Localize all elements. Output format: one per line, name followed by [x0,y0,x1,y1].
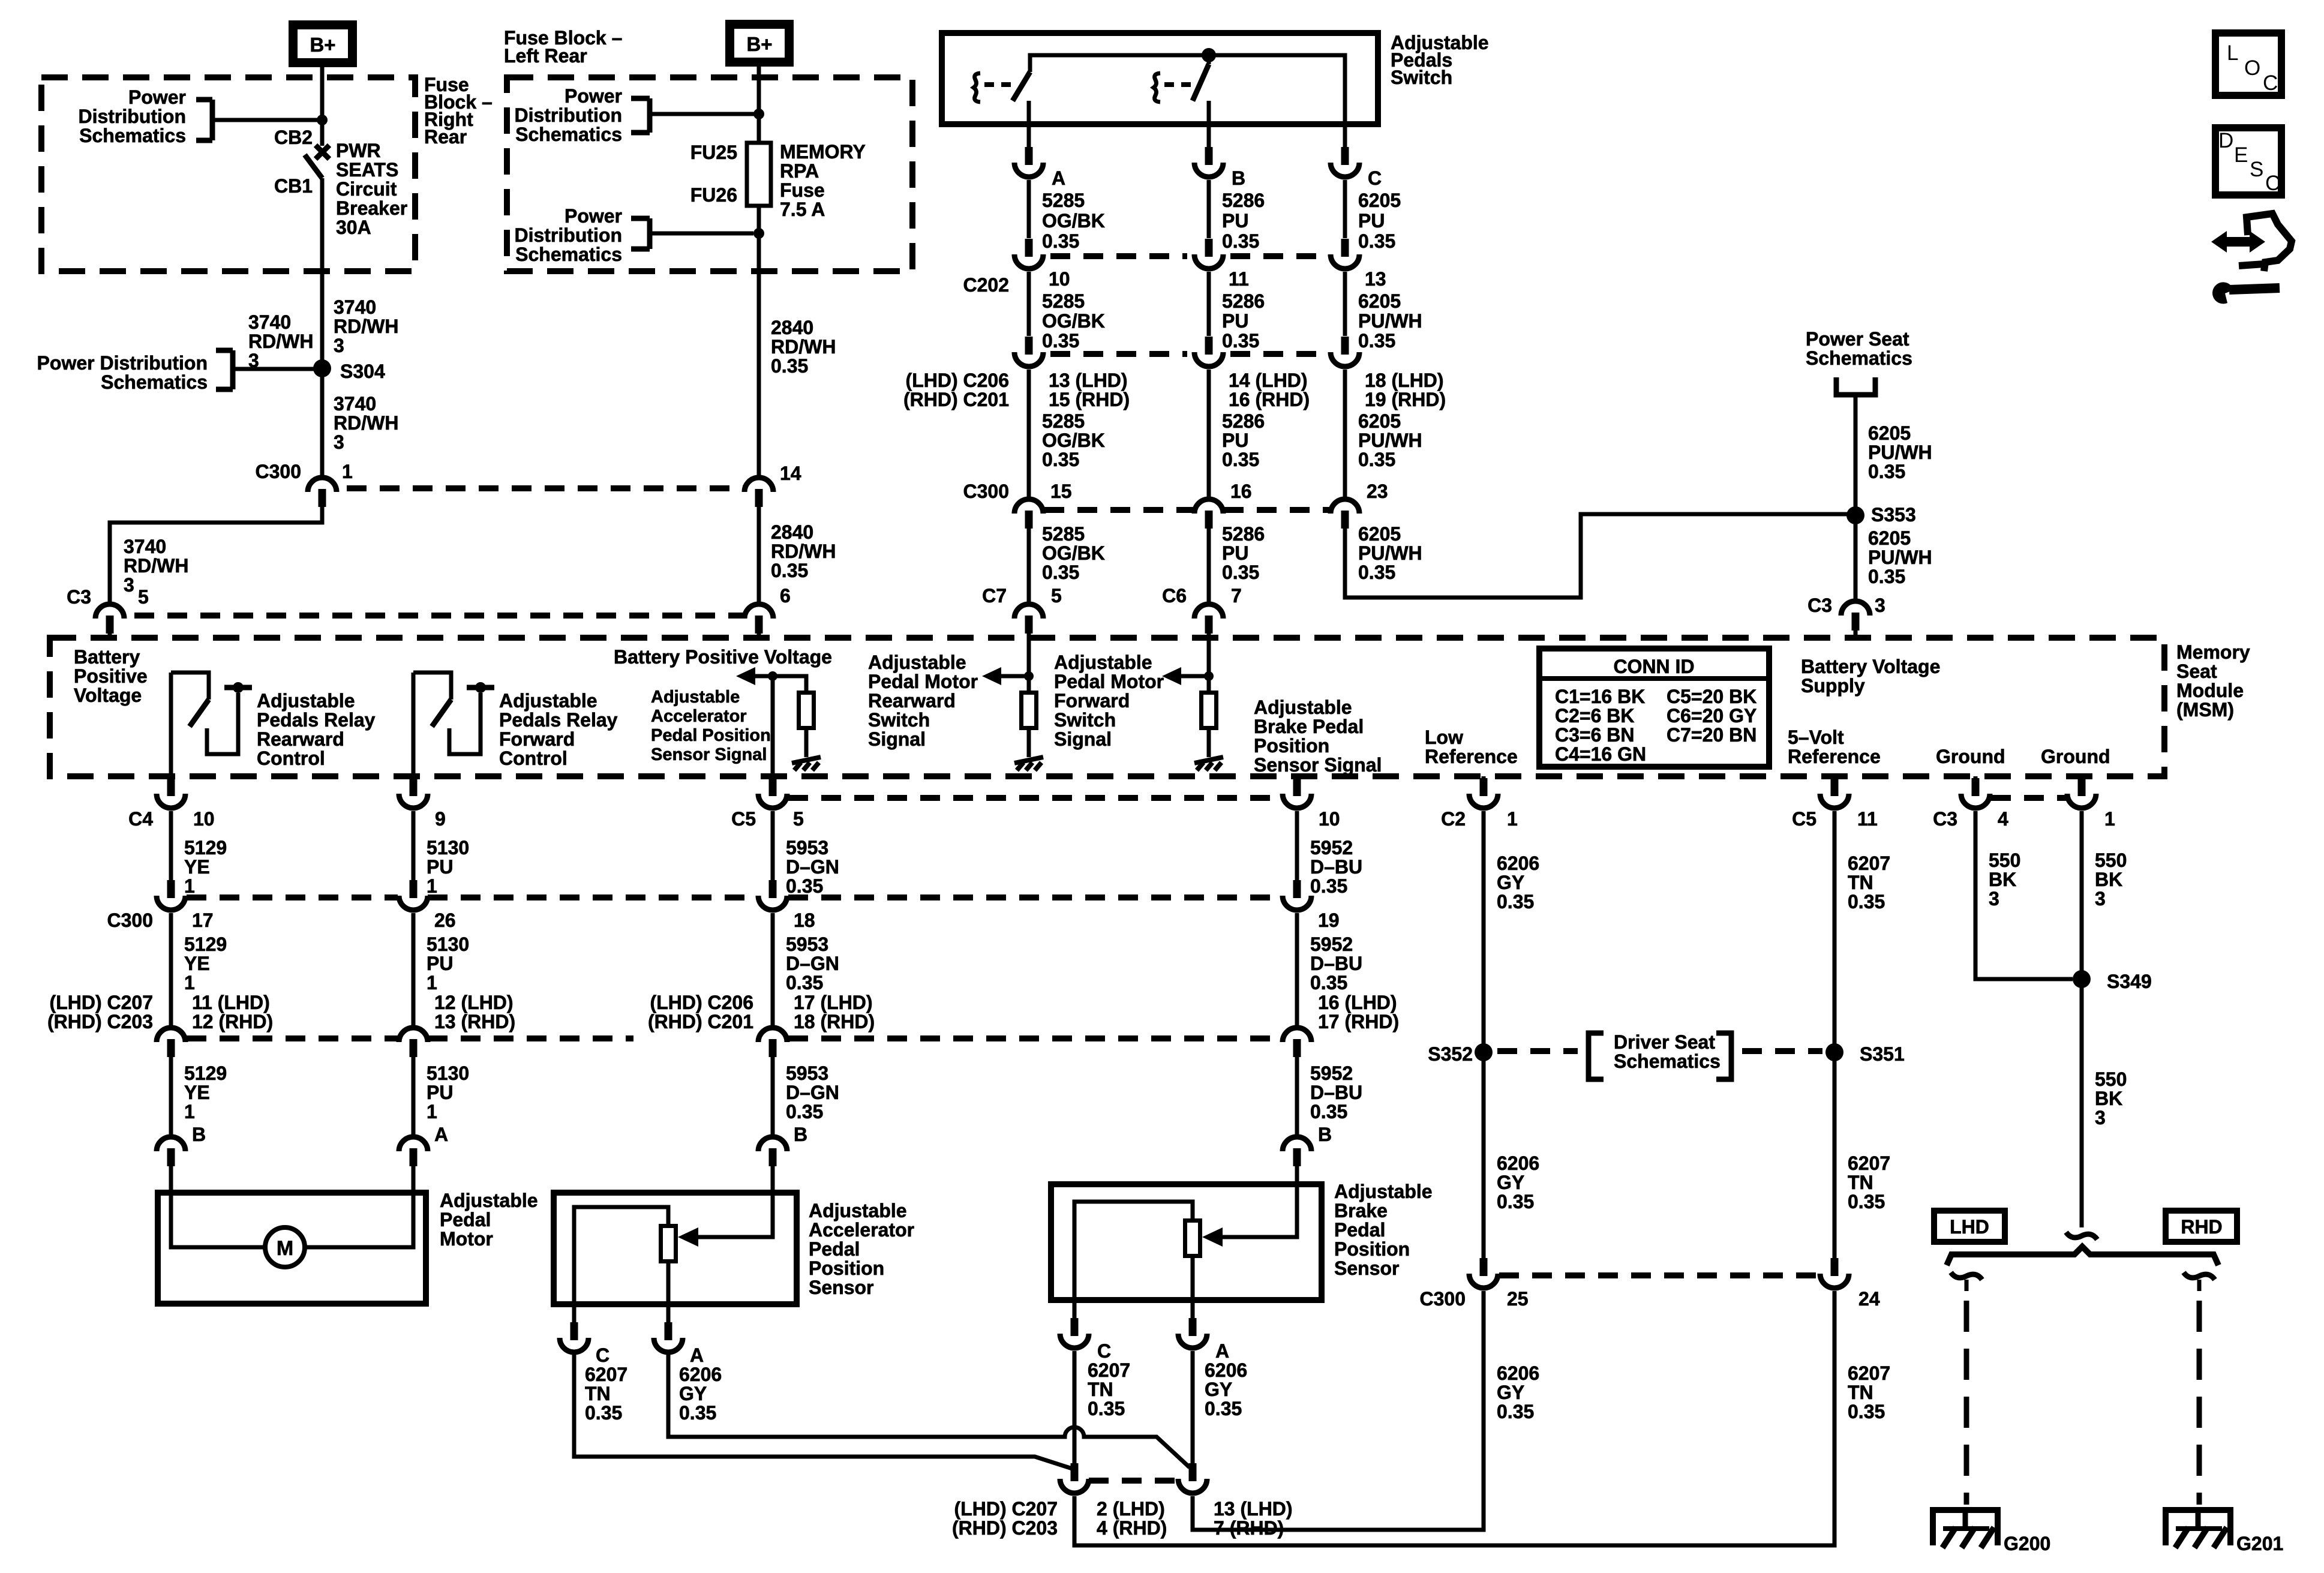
svg-text:PU/WH: PU/WH [1868,547,1932,568]
svg-text:PU: PU [427,856,453,878]
dashed line driver seat (right) [1742,1048,1822,1054]
svg-text:Power: Power [565,85,622,107]
svg-text:0.35: 0.35 [1222,230,1259,252]
connector C207/C203 row at x=285 [157,1028,185,1042]
svg-text:5: 5 [793,808,804,830]
wire C202-10 down [1027,272,1031,336]
svg-text:0.35: 0.35 [1310,972,1347,993]
svg-text:Adjustable: Adjustable [499,690,597,712]
node FU25 feed [753,109,764,119]
svg-text:Adjustable: Adjustable [257,690,355,712]
svg-text:BK: BK [2095,869,2122,890]
svg-text:Sensor: Sensor [809,1277,873,1298]
svg-text:5285: 5285 [1042,190,1085,211]
wire C300-1 to C3-5 [110,507,322,602]
svg-text:2840: 2840 [771,317,813,338]
connector C300 pin 15 [1014,499,1043,514]
dashed line MSM output row (C5-5 to brake) [788,795,1281,801]
svg-text:5: 5 [1051,585,1062,607]
dashed line C300 bottom row [1499,1272,1819,1278]
svg-text:Rearward: Rearward [257,728,344,750]
wire S304 to C300-1 [320,368,325,476]
svg-text:1: 1 [1507,808,1518,830]
svg-text:6207: 6207 [1848,1152,1890,1174]
node relay 2 feed [475,682,486,693]
bracket power distribution (S304) [216,348,233,353]
svg-text:Pedal Motor: Pedal Motor [868,671,978,692]
wire switch output A [1027,124,1031,147]
RHD drop stub [2197,1280,2202,1291]
wire B pin to brake sensor box [1295,1166,1299,1187]
RHD box [2166,1211,2237,1242]
svg-text:Sensor Signal: Sensor Signal [1254,754,1382,776]
svg-text:PWR: PWR [336,140,381,161]
motor M symbol [265,1227,305,1267]
svg-text:Rearward: Rearward [868,690,956,712]
svg-text:(LHD) C207: (LHD) C207 [954,1498,1058,1520]
svg-text:PU: PU [1222,542,1248,564]
wire down to C300 row [1027,370,1031,498]
svg-text:17 (RHD): 17 (RHD) [1318,1011,1399,1032]
svg-text:CONN ID: CONN ID [1613,656,1694,677]
wire brake C down [1073,1351,1077,1464]
svg-text:TN: TN [1848,872,1873,893]
svg-text:0.35: 0.35 [1205,1398,1242,1419]
svg-text:0.35: 0.35 [1497,1191,1534,1212]
svg-text:Memory: Memory [2176,641,2250,663]
wire switch output B [1207,124,1211,147]
wire acc A to bottom connector (with hop) [668,1351,1190,1467]
svg-text:16: 16 [1230,481,1252,502]
svg-text:Pedal: Pedal [1334,1219,1385,1241]
svg-text:1: 1 [427,1101,437,1122]
wire B+2 down [757,65,761,143]
svg-text:5–Volt: 5–Volt [1788,727,1844,748]
brake wiper feed [1221,1187,1297,1237]
svg-text:A: A [690,1344,704,1366]
svg-text:(RHD) C201: (RHD) C201 [648,1011,753,1032]
svg-text:19 (RHD): 19 (RHD) [1365,389,1446,410]
connector C300 pin 24 [1831,1258,1839,1276]
svg-text:D–GN: D–GN [786,856,839,878]
wire down to C300 row [1207,370,1211,498]
svg-text:C5: C5 [1792,808,1816,830]
node rearward switch signal [1024,671,1034,681]
svg-text:C300: C300 [1420,1288,1466,1310]
connector acc sensor pin C [571,1322,578,1340]
svg-text:C3: C3 [1807,595,1832,616]
svg-text:C3=6 BN: C3=6 BN [1555,724,1635,746]
adjustable accelerator pedal position sensor box [554,1193,797,1304]
svg-text:6206: 6206 [1205,1359,1247,1381]
svg-text:TN: TN [1088,1379,1113,1400]
svg-text:5952: 5952 [1310,933,1353,955]
svg-text:Power Seat: Power Seat [1806,328,1909,350]
wire switch output C [1343,124,1347,147]
switch common rail [1030,55,1345,124]
svg-text:D: D [2218,129,2233,152]
fuse block left rear dashed box [507,77,912,271]
svg-text:A: A [1052,167,1065,189]
wire A to C202 [1027,180,1031,238]
svg-text:S352: S352 [1428,1043,1473,1065]
LOC box [2215,33,2281,95]
wire tap to FU26 node [650,232,753,236]
svg-text:C2: C2 [1441,808,1466,830]
svg-text:(MSM): (MSM) [2176,699,2234,721]
svg-text:1: 1 [2104,808,2115,830]
svg-text:GY: GY [1497,872,1524,893]
connector C300 pin 14 [744,478,773,492]
dashed line MSM output row (C3-4 to ground 1) [1991,795,2066,801]
svg-text:Adjustable: Adjustable [1334,1181,1433,1202]
svg-text:25: 25 [1507,1288,1529,1310]
svg-text:C: C [2265,172,2280,195]
wire MSM box edge to connector at x=689 [412,776,416,780]
wire 5952 seg3 [1295,1057,1299,1134]
dashed wire to G201 [2197,1301,2202,1505]
wire 5130 seg3 [412,1057,416,1134]
svg-text:5130: 5130 [427,933,469,955]
svg-text:18 (LHD): 18 (LHD) [1365,370,1444,391]
arrow rearward switch signal [982,667,1001,685]
svg-text:5953: 5953 [786,933,828,955]
svg-text:PU/WH: PU/WH [1868,442,1932,463]
svg-text:C: C [1368,167,1382,189]
connector C300 pin 19 [1293,880,1301,898]
adjustable pedals icon arrow [2211,231,2265,253]
motor internal wires [171,1193,265,1247]
wire 6207 TN to C300-24 [1074,1291,1834,1545]
svg-text:RD/WH: RD/WH [248,331,313,352]
svg-text:PU/WH: PU/WH [1358,310,1422,332]
svg-text:Schematics: Schematics [515,244,622,265]
svg-text:1: 1 [184,875,195,897]
connector brake sensor pin C [1071,1318,1079,1336]
svg-text:5953: 5953 [786,1062,828,1084]
svg-text:0.35: 0.35 [1358,230,1395,252]
svg-text:Accelerator: Accelerator [809,1219,914,1241]
svg-text:OG/BK: OG/BK [1042,210,1105,232]
svg-text:C3: C3 [1933,808,1957,830]
wire CB1 to S304 [320,178,325,361]
arrow forward switch signal [1162,667,1181,685]
svg-text:5952: 5952 [1310,1062,1353,1084]
wire B+ to CB2 [320,67,325,146]
connector C6 pin 7 [1194,604,1223,619]
svg-text:12 (RHD): 12 (RHD) [192,1011,273,1032]
wire below C300-26 [412,913,416,1026]
svg-text:C202: C202 [963,274,1010,296]
wire MSM box edge to connector at x=285 [169,776,173,780]
svg-text:TN: TN [1848,1382,1873,1403]
switch 1 actuator dashes [984,82,1014,87]
svg-text:Breaker: Breaker [336,197,407,219]
svg-text:GY: GY [679,1383,707,1404]
connector device pin at x=2162 [1283,1137,1311,1151]
connector brake sensor pin A [1189,1318,1197,1336]
svg-text:Sensor: Sensor [1334,1257,1399,1279]
wire MSM box edge to connector at x=3293 [1974,776,1978,780]
svg-text:GY: GY [1205,1379,1232,1400]
svg-text:Voltage: Voltage [74,685,142,706]
svg-text:(LHD) C206: (LHD) C206 [650,992,753,1013]
connector C3 pin 5 [95,604,124,619]
wire accelerator tap branch [773,676,806,691]
connector pedals switch pin B [1205,147,1213,165]
connector C206/C201 pin 14 (LHD) [1205,337,1213,355]
wire C5-11 to S351 [1833,811,1837,1052]
svg-text:3: 3 [1989,888,1999,909]
resistor forward switch signal [1202,693,1217,728]
power symbol B+ (fuse block right rear feed) [293,25,353,63]
ground G200 [1933,1507,1998,1513]
svg-text:Schematics: Schematics [1614,1050,1721,1072]
LHD drop stub [1965,1280,1969,1291]
svg-text:0.35: 0.35 [786,1101,823,1122]
svg-text:1: 1 [427,972,437,993]
switch 1 contact wire A [1027,101,1031,124]
connector C300 pin 16 [1194,499,1223,514]
svg-text:3740: 3740 [334,393,376,415]
arrow to battery positive voltage [736,667,755,685]
svg-text:RD/WH: RD/WH [771,541,836,562]
dashed line bottom connector row [1089,1478,1177,1484]
wire S353 to C3-3 [1854,515,1858,599]
svg-text:OG/BK: OG/BK [1042,542,1105,564]
svg-text:13 (LHD): 13 (LHD) [1049,370,1128,391]
LHD/RHD option split bar [1947,1247,2218,1265]
bracket power distribution (FU25 top) [631,96,650,101]
svg-text:6205: 6205 [1358,190,1401,211]
wire acc C out [572,1304,577,1323]
svg-text:Pedal: Pedal [809,1238,860,1260]
connector row pin 1 at x=3470 [2078,778,2086,796]
svg-text:Brake: Brake [1334,1200,1388,1221]
svg-text:5285: 5285 [1042,523,1085,545]
wire 5952 seg1 [1295,811,1299,880]
svg-text:Pedal Position: Pedal Position [651,726,771,745]
svg-text:Module: Module [2176,680,2244,701]
switch 2 blade [1193,64,1209,101]
connector pedals switch pin C [1341,147,1349,165]
wire C300-16 to C6-7 [1207,529,1211,602]
svg-text:S353: S353 [1871,504,1916,526]
switch 2 stem [1207,55,1211,64]
svg-text:0.35: 0.35 [1848,891,1885,912]
svg-text:Adjustable: Adjustable [868,652,966,673]
resistor rearward switch signal [1022,693,1037,728]
wire power distribution tap [212,118,322,122]
svg-text:4 (RHD): 4 (RHD) [1097,1517,1167,1539]
svg-text:6: 6 [780,585,791,607]
adjustable pedal motor box [158,1193,426,1304]
switch 1 actuator curly [974,73,980,102]
wire 5129 seg3 [169,1057,173,1134]
svg-text:6206: 6206 [1497,1152,1539,1174]
svg-text:E: E [2234,143,2248,167]
svg-text:CB1: CB1 [274,175,313,197]
svg-text:5953: 5953 [786,837,828,858]
wire accelerator signal to box edge [771,676,775,776]
svg-text:G201: G201 [2236,1533,2283,1554]
connector memory seat module pin 6 [744,604,773,619]
wire 6206 GY to C300-25 [1193,1291,1484,1530]
svg-text:S351: S351 [1860,1043,1905,1065]
svg-text:Pedal Motor: Pedal Motor [1054,671,1164,692]
svg-text:Reference: Reference [1788,746,1881,767]
svg-text:0.35: 0.35 [771,355,808,377]
svg-text:PU: PU [1222,210,1248,232]
wire C3-4 to S349 [1975,811,2073,979]
svg-text:Switch: Switch [868,709,930,731]
wire MSM box edge to connector at x=2162 [1295,776,1299,780]
svg-text:Fuse: Fuse [780,179,825,201]
wire MSM box edge to connector at x=3470 [2080,776,2084,780]
wire S352 to C300-25 [1482,1052,1486,1258]
adjustable pedals switch box [942,33,1378,124]
svg-text:7.5 A: 7.5 A [780,199,825,220]
svg-text:Distribution: Distribution [514,104,622,126]
svg-text:11: 11 [1857,808,1878,830]
connector device pin at x=285 [157,1137,185,1151]
svg-text:C3: C3 [67,586,91,608]
svg-text:C7: C7 [982,585,1007,607]
svg-text:D–GN: D–GN [786,953,839,974]
wire relay 2 to box edge [412,673,416,776]
dashed line C300 row (left) [347,485,744,491]
wire MSM box edge to connector at x=2473 [1482,776,1486,780]
wire acc A out [666,1304,671,1323]
connector C206/C201 pin 18 (LHD) [1341,337,1349,355]
svg-text:17 (LHD): 17 (LHD) [794,992,873,1013]
svg-text:3740: 3740 [248,311,291,333]
svg-text:0.35: 0.35 [679,1402,716,1424]
wire break squiggle (LHD) [1951,1272,1982,1280]
connector C207/C203 row at x=2162 [1283,1028,1311,1042]
wire B pin to accelerator sensor box [771,1166,775,1195]
svg-text:C7=20 BN: C7=20 BN [1667,724,1756,746]
svg-text:6207: 6207 [1088,1359,1130,1381]
svg-text:3740: 3740 [124,536,166,557]
relay 1 feed bar [224,685,252,691]
svg-text:Ground: Ground [2041,746,2110,767]
connector C207/C203 pin 13/7 [1189,1463,1197,1481]
relay 2 feed bar [467,685,494,691]
svg-text:Pedal: Pedal [440,1209,491,1230]
svg-text:D–GN: D–GN [786,1082,839,1103]
svg-text:G200: G200 [2004,1533,2050,1554]
pin stub into MSM [108,634,112,638]
connector C202 pin 13 [1341,239,1349,257]
svg-text:C300: C300 [963,481,1010,502]
wire 5953 seg1 [771,811,775,880]
svg-text:0.35: 0.35 [1868,566,1905,587]
connector C300 pin 23 [1331,499,1359,514]
svg-text:0.35: 0.35 [786,875,823,897]
svg-text:Accelerator: Accelerator [651,707,747,726]
wire break squiggle (RHD) [2184,1272,2215,1280]
wire below C300-19 [1295,913,1299,1026]
svg-text:S304: S304 [340,361,385,382]
svg-text:C2=6 BK: C2=6 BK [1555,705,1635,727]
svg-text:11 (LHD): 11 (LHD) [192,992,270,1013]
svg-text:0.35: 0.35 [1497,1401,1534,1422]
svg-text:Control: Control [499,748,568,769]
svg-text:S: S [2250,158,2263,181]
svg-text:TN: TN [585,1383,611,1404]
svg-text:550: 550 [2095,849,2127,871]
wire fuse to C300-14 [757,271,761,475]
svg-text:6206: 6206 [1497,852,1539,874]
bracket driver seat right [1716,1033,1731,1079]
svg-text:Position: Position [1334,1238,1410,1260]
svg-text:23: 23 [1367,481,1388,502]
wire B to C202 [1207,180,1211,238]
svg-text:0.35: 0.35 [1042,449,1079,470]
connector device pin at x=689 [399,1137,428,1151]
svg-text:6205: 6205 [1358,523,1401,545]
svg-text:L: L [2227,41,2238,65]
DESC box [2215,128,2281,195]
svg-text:Adjustable: Adjustable [1254,697,1352,718]
svg-text:D–BU: D–BU [1310,856,1362,878]
connector C207/C203 row at x=1288 [758,1028,787,1042]
svg-text:5129: 5129 [184,837,227,858]
svg-text:O: O [2244,56,2260,80]
svg-text:C5: C5 [731,808,756,830]
svg-text:1: 1 [342,461,353,482]
svg-text:Driver Seat: Driver Seat [1614,1031,1715,1053]
wire 5130 seg1 [412,811,416,880]
switch 2 actuator curly [1154,73,1160,102]
splice S349 [2073,970,2091,988]
node forward switch signal [1204,671,1214,681]
svg-text:5286: 5286 [1222,410,1265,432]
svg-text:B+: B+ [746,33,772,55]
svg-text:3: 3 [2095,1107,2106,1128]
brake wiper arrow [1202,1227,1223,1247]
svg-text:13 (LHD): 13 (LHD) [1214,1498,1293,1520]
svg-text:Adjustable: Adjustable [1054,652,1152,673]
node accelerator signal [768,671,777,681]
svg-text:B+: B+ [310,34,335,56]
accelerator wiper feed [697,1195,773,1237]
svg-text:RD/WH: RD/WH [334,412,398,434]
svg-text:SEATS: SEATS [336,159,398,181]
dashed line C202 row [1050,253,1187,259]
svg-text:C5=20 BK: C5=20 BK [1667,686,1756,707]
splice S351 [1825,1043,1843,1061]
wire brake A down [1191,1351,1195,1464]
svg-text:0.35: 0.35 [1088,1398,1125,1419]
accelerator pot bottom wire [666,1263,671,1304]
svg-text:FU25: FU25 [690,142,737,163]
pin C6-7 stub into MSM [1207,634,1211,638]
svg-text:Reference: Reference [1425,746,1518,767]
CONN ID table box [1539,649,1769,767]
svg-text:OG/BK: OG/BK [1042,310,1105,332]
svg-text:B: B [1318,1124,1332,1145]
svg-text:18: 18 [794,909,815,931]
svg-text:5952: 5952 [1310,837,1353,858]
svg-text:GY: GY [1497,1382,1524,1403]
svg-text:5286: 5286 [1222,523,1265,545]
bracket power distribution (FU26) [631,216,650,221]
svg-text:Adjustable: Adjustable [809,1200,907,1221]
connector C300 pin 17 [167,880,175,898]
svg-text:0.35: 0.35 [1848,1401,1885,1422]
